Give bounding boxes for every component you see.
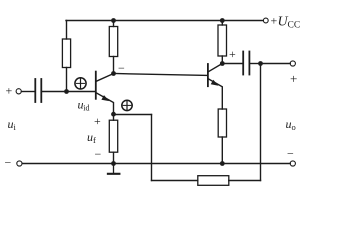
node bottom rail R5 [220, 161, 225, 166]
resistor R3 [109, 120, 117, 152]
wire emitter node to R3 [113, 115, 115, 121]
wire input to C1 [22, 91, 36, 93]
wire R3 bottom to ground rail [113, 152, 115, 163]
wire C2 to output node [250, 63, 260, 65]
node Q1 collector [111, 71, 116, 76]
resistor R5 [218, 109, 226, 137]
wire collector node to Q2 base [114, 74, 208, 76]
wire R1 bottom to base wire [66, 68, 68, 92]
transistor Q1 emitter lead [97, 93, 114, 114]
svg-text:+: + [6, 84, 13, 98]
wire emitter node to feedback vertical [114, 114, 152, 116]
wire R5 bottom to ground rail [221, 137, 223, 164]
capacitor C2 [243, 52, 249, 75]
node Q2 collector [220, 61, 225, 66]
wire bottom rail [22, 163, 290, 165]
transistor Q1 emitter arrow [101, 95, 109, 101]
svg-text:+: + [290, 71, 297, 86]
wire C1 to Q1 base [42, 91, 95, 93]
svg-text:i: i [14, 122, 17, 132]
transistor Q1 collector lead [97, 74, 114, 82]
transistor Q2 emitter lead [209, 79, 223, 109]
svg-text:−: − [95, 147, 102, 161]
ground [108, 164, 120, 174]
wire R2 bottom to collector node [113, 57, 115, 74]
svg-text:f: f [93, 135, 96, 145]
terminal output + open circle [290, 61, 295, 66]
node top rail junction 2 [220, 18, 225, 23]
wire feedback bottom right segment [229, 180, 261, 182]
transistor Q2 collector lead [209, 64, 223, 72]
svg-text:+: + [229, 47, 236, 61]
node R1-base junction [64, 89, 69, 94]
symbol circled-plus uf [122, 100, 132, 110]
svg-text:−: − [5, 156, 12, 170]
transistor Q2 base bar [207, 64, 209, 86]
transistor Q2 emitter arrow [211, 80, 219, 86]
node top rail junction 1 [111, 18, 116, 23]
resistor R4 [218, 25, 227, 56]
resistor R2 [109, 27, 117, 57]
capacitor C1 [35, 79, 41, 102]
svg-text:id: id [83, 104, 89, 113]
svg-text:+: + [94, 114, 101, 128]
node ground rail R3 [111, 161, 116, 166]
wire R2 top [113, 21, 115, 27]
wire Q2 collector node to C2 [222, 63, 242, 65]
svg-text:o: o [292, 122, 296, 132]
wire feedback vertical left [151, 115, 153, 181]
wire R4 bottom to collector node of Q2 [221, 56, 223, 64]
svg-text:−: − [118, 61, 125, 75]
svg-text:CC: CC [288, 21, 301, 31]
resistor R1 [62, 39, 70, 68]
terminal input - open circle [17, 161, 22, 166]
wire R4 top [221, 21, 223, 26]
node Q1 emitter [111, 112, 116, 117]
wire top supply rail [66, 20, 263, 22]
svg-text:+: + [271, 14, 278, 28]
wire output node to terminal [261, 63, 291, 65]
wire feedback vertical right to output node [260, 64, 262, 181]
svg-text:−: − [287, 147, 294, 161]
terminal +UCC open circle [263, 18, 268, 23]
transistor Q1 base bar [95, 72, 97, 99]
resistor RF feedback [198, 176, 229, 186]
symbol circled-plus uid [75, 78, 86, 89]
wire R1 top from rail corner [66, 21, 68, 40]
terminal output - open circle [290, 161, 295, 166]
wire feedback bottom left segment [152, 180, 198, 182]
node output [258, 61, 263, 66]
terminal input + open circle [16, 89, 21, 94]
